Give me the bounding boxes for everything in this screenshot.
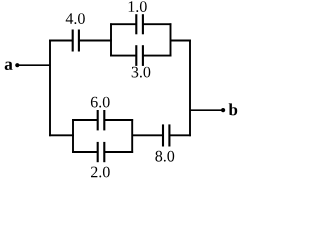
wire bottom box upper rail left <box>72 119 98 121</box>
node b label <box>229 103 238 115</box>
value label 2.0 <box>91 167 110 178</box>
wire bottom box upper rail right <box>104 119 133 121</box>
value label 8.0 <box>155 151 174 162</box>
capacitor C3 3.0 right plate <box>142 45 144 66</box>
capacitor C1 4.0 left plate <box>72 30 74 52</box>
wire bottom box lower rail left <box>72 151 98 153</box>
wire right vertical bus <box>189 40 191 137</box>
wire bottom branch left segment <box>49 134 74 136</box>
wire top box lower rail left <box>110 55 136 57</box>
capacitor C4 6.0 right plate <box>103 110 105 130</box>
wire top box left vertical <box>110 23 112 56</box>
capacitor C2 1.0 right plate <box>142 14 144 34</box>
node a label <box>5 62 13 70</box>
value label 6.0 <box>91 97 110 108</box>
wire top branch to right vertical <box>171 40 191 42</box>
capacitor C5 2.0 right plate <box>103 142 105 162</box>
wire top box right vertical <box>170 23 172 56</box>
wire bottom box lower rail right <box>104 151 133 153</box>
wire to b terminal <box>190 109 222 111</box>
wire C6 to right vertical <box>169 134 191 136</box>
wire top branch left segment <box>49 40 73 42</box>
wire top box upper rail right <box>143 23 172 25</box>
capacitor C1 4.0 right plate <box>78 30 80 52</box>
value label 3.0 <box>132 67 151 78</box>
wire top box lower rail right <box>143 55 172 57</box>
node b terminal dot <box>221 108 225 112</box>
wire bottom box to C6 <box>132 134 163 136</box>
value label 4.0 <box>66 13 85 24</box>
capacitor C5 2.0 left plate <box>97 142 99 162</box>
node a terminal dot <box>15 63 19 67</box>
value label 1.0 <box>129 1 147 12</box>
wire top box upper rail left <box>110 23 136 25</box>
wire left vertical bus <box>49 40 51 137</box>
capacitor C2 1.0 left plate <box>135 14 137 34</box>
wire bottom box right vertical <box>131 119 133 153</box>
wire from C1 to parallel box <box>79 40 112 42</box>
capacitor C6 8.0 left plate <box>162 124 164 146</box>
wire from a to left vertical <box>19 64 50 66</box>
wire bottom box left vertical <box>72 119 74 153</box>
capacitor C4 6.0 left plate <box>97 110 99 130</box>
capacitor C6 8.0 right plate <box>168 124 170 146</box>
capacitor C3 3.0 left plate <box>135 45 137 66</box>
